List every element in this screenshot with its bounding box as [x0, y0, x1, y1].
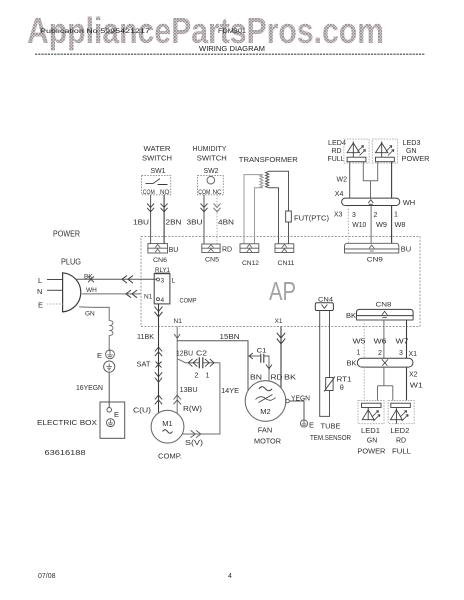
header rule	[35, 53, 425, 55]
pin 4	[157, 298, 160, 301]
svg-text:3: 3	[161, 278, 165, 285]
wire GN from plug to ground	[79, 307, 109, 321]
svg-text:NO: NO	[160, 189, 170, 196]
svg-text:1: 1	[357, 349, 361, 356]
connector CN8	[357, 309, 414, 315]
svg-text:LED4: LED4	[328, 140, 346, 147]
wire SW1 COM (1BU)	[150, 195, 152, 244]
svg-text:BU: BU	[169, 247, 179, 254]
svg-text:RD: RD	[222, 246, 232, 253]
chevrons	[201, 203, 208, 211]
svg-text:LED3: LED3	[403, 140, 421, 147]
svg-text:SWITCH: SWITCH	[142, 155, 172, 162]
svg-text:X3: X3	[334, 211, 343, 218]
chevrons up on R(W) wire	[174, 395, 181, 404]
svg-text:1: 1	[394, 212, 398, 219]
LED2	[388, 401, 414, 424]
svg-text:SAT: SAT	[137, 361, 152, 368]
relay RLY1	[154, 274, 170, 304]
svg-text:POWER: POWER	[357, 447, 386, 456]
chevrons on S(V) wire	[191, 430, 201, 437]
svg-text:2: 2	[374, 212, 378, 219]
connector CN11	[275, 244, 294, 253]
svg-text:W6: W6	[374, 338, 387, 345]
chevrons down	[155, 372, 162, 382]
SAT X marker	[156, 362, 162, 368]
chassis ground circle	[104, 361, 115, 372]
wire SW2 NC (4BN)	[216, 195, 218, 244]
BK wire connector chevrons	[122, 276, 133, 284]
svg-text:W8: W8	[395, 222, 406, 229]
chevrons down	[277, 333, 285, 344]
svg-text:GN: GN	[367, 438, 378, 445]
svg-text:L: L	[38, 276, 42, 285]
svg-text:3BU: 3BU	[187, 220, 203, 227]
wire N1 to compressor R(W)	[177, 327, 185, 414]
svg-text:COMP: COMP	[180, 297, 197, 304]
svg-text:Publication No 5995421217: Publication No 5995421217	[40, 28, 151, 35]
BK wire X marker	[88, 276, 94, 282]
wire 11BK relay pin4 to compressor	[158, 304, 160, 413]
wire W9	[370, 206, 372, 244]
svg-text:4BN: 4BN	[218, 220, 234, 227]
capacitor C2	[186, 357, 220, 368]
svg-text:BK: BK	[284, 374, 296, 381]
svg-text:3: 3	[399, 350, 403, 357]
svg-text:TUBE: TUBE	[321, 422, 341, 431]
svg-text:NC: NC	[213, 189, 223, 196]
wire 16YEGN	[108, 372, 110, 407]
tube sensor wire pair	[320, 311, 330, 417]
wire LED3 right lead	[391, 162, 393, 199]
svg-text:X1: X1	[409, 351, 418, 358]
LED3	[372, 139, 397, 163]
svg-text:AP: AP	[269, 276, 296, 306]
svg-text:4: 4	[161, 297, 165, 304]
svg-text:SWITCH: SWITCH	[197, 155, 227, 162]
svg-text:W1: W1	[410, 382, 423, 389]
wire W6	[383, 320, 385, 358]
chevrons	[161, 203, 168, 211]
svg-text:TEM.SENSOR: TEM.SENSOR	[310, 433, 351, 442]
wire X1 BK from AP to fan motor	[280, 327, 282, 389]
electric box ground symbol	[107, 419, 115, 427]
svg-text:HUMIDITY: HUMIDITY	[193, 146, 227, 153]
svg-text:W7: W7	[396, 338, 409, 345]
svg-text:GN: GN	[85, 311, 95, 318]
connector bar X1/X2	[357, 358, 413, 367]
wire W5	[363, 320, 365, 358]
svg-text:S(V): S(V)	[185, 440, 203, 447]
connector CN5	[202, 244, 220, 253]
wire BK from plug to relay pin3	[77, 278, 157, 280]
svg-text:θ: θ	[340, 385, 344, 392]
svg-text:N1: N1	[174, 318, 183, 325]
svg-text:X1: X1	[275, 318, 283, 325]
compressor motor M1	[151, 410, 184, 443]
svg-text:COM: COM	[198, 189, 210, 196]
svg-text:BN: BN	[250, 374, 262, 381]
svg-text:BU: BU	[401, 244, 411, 253]
switch SW1	[142, 176, 171, 195]
svg-text:FDM301: FDM301	[218, 28, 246, 35]
LED1	[358, 401, 384, 424]
svg-text:CN9: CN9	[367, 257, 383, 264]
svg-text:WH: WH	[403, 198, 416, 207]
svg-text:POWER: POWER	[402, 156, 430, 163]
power plug	[63, 273, 81, 312]
wire 14YE	[182, 363, 220, 434]
switch SW2	[198, 176, 224, 195]
LED4	[344, 139, 369, 163]
svg-text:COMP.: COMP.	[158, 451, 182, 460]
svg-text:16YEGN: 16YEGN	[76, 385, 103, 392]
svg-text:CN8: CN8	[376, 302, 392, 309]
svg-text:X2: X2	[409, 371, 418, 378]
connector CN6	[148, 244, 168, 253]
svg-text:BK: BK	[346, 311, 356, 320]
wire SW1 NO (2BN)	[163, 195, 165, 244]
svg-text:14YE: 14YE	[221, 388, 239, 395]
wire W8	[391, 206, 393, 244]
svg-text:WATER: WATER	[144, 146, 171, 153]
earth terminal E circle	[106, 350, 115, 359]
svg-text:C1: C1	[257, 347, 267, 354]
svg-text:C2: C2	[196, 350, 207, 357]
svg-text:CN11: CN11	[278, 260, 295, 267]
wire W5 to LED1	[363, 367, 365, 400]
terminal N lead	[47, 289, 63, 291]
wire 15BN	[177, 341, 248, 391]
LED4-LED3 bridge wire	[363, 162, 377, 199]
fan ground symbol	[300, 420, 307, 427]
terminal L lead	[47, 279, 63, 281]
svg-text:12BU: 12BU	[176, 350, 193, 357]
svg-text:13BU: 13BU	[180, 387, 198, 394]
transformer primary winding	[244, 175, 263, 244]
svg-text:E: E	[38, 301, 43, 310]
svg-text:M2: M2	[260, 407, 270, 416]
svg-text:FAN: FAN	[258, 425, 273, 434]
svg-text:POWER: POWER	[53, 230, 80, 239]
svg-text:YEGN: YEGN	[291, 395, 310, 402]
svg-text:RD: RD	[396, 438, 406, 445]
svg-text:E: E	[97, 351, 102, 360]
svg-text:X4: X4	[335, 191, 344, 198]
svg-text:E: E	[114, 410, 119, 419]
svg-text:N1: N1	[144, 293, 153, 300]
wire W6 split to LED1/LED2	[378, 367, 393, 400]
terminal E lead	[47, 303, 63, 305]
thermistor RT1	[326, 378, 333, 391]
svg-text:W10: W10	[352, 222, 366, 229]
svg-text:CN5: CN5	[205, 257, 219, 264]
transformer secondary winding	[266, 171, 289, 244]
svg-text:TRANSFORMER: TRANSFORMER	[239, 155, 299, 164]
WH wire connector chevrons	[126, 290, 137, 298]
svg-text:PLUG: PLUG	[61, 258, 81, 267]
svg-text:R(W): R(W)	[183, 406, 202, 413]
svg-text:SW1: SW1	[151, 168, 166, 175]
wire WH from plug to AP	[82, 293, 141, 295]
svg-text:15BN: 15BN	[220, 334, 240, 341]
svg-text:11BK: 11BK	[137, 334, 154, 341]
svg-text:COM: COM	[143, 189, 155, 196]
svg-text:2: 2	[195, 373, 199, 380]
svg-text:BK: BK	[347, 358, 357, 367]
svg-text:E: E	[309, 421, 314, 430]
svg-text:2BN: 2BN	[166, 220, 182, 227]
svg-text:63616188: 63616188	[45, 448, 86, 457]
connector bar X4 WH	[342, 198, 400, 205]
svg-text:ELECTRIC BOX: ELECTRIC BOX	[37, 418, 97, 427]
YEGN terminal and wire	[286, 399, 290, 403]
svg-text:C(U): C(U)	[133, 407, 151, 414]
wire to earth symbol	[108, 336, 110, 352]
svg-text:07/08: 07/08	[38, 573, 56, 580]
svg-text:3: 3	[352, 212, 356, 219]
wire W2 LED4 left lead	[349, 162, 351, 199]
svg-text:W2: W2	[337, 176, 348, 183]
svg-text:1: 1	[206, 373, 210, 380]
chevrons	[214, 203, 221, 211]
wire W7	[406, 320, 408, 358]
svg-text:2: 2	[378, 350, 382, 357]
svg-text:W9: W9	[376, 222, 387, 229]
svg-text:1BU: 1BU	[133, 220, 149, 227]
chevrons up	[155, 395, 162, 404]
svg-text:L: L	[172, 278, 176, 285]
svg-text:SW2: SW2	[204, 168, 219, 175]
wire W1 to LED2	[406, 367, 408, 400]
svg-text:MOTOR: MOTOR	[254, 437, 282, 446]
svg-text:LED1: LED1	[361, 428, 380, 435]
svg-text:CN6: CN6	[153, 257, 167, 264]
electric box E terminal	[107, 408, 112, 413]
fan motor M2	[245, 381, 286, 422]
connector CN12	[240, 244, 259, 253]
svg-text:M1: M1	[162, 419, 172, 428]
pin 3	[157, 278, 160, 281]
wire SW2 COM (3BU)	[203, 195, 205, 244]
svg-text:FULL: FULL	[328, 156, 345, 163]
svg-text:4: 4	[228, 573, 232, 580]
svg-text:FULL: FULL	[392, 447, 411, 456]
electric box	[100, 402, 125, 438]
control board AP box	[141, 237, 420, 327]
chevrons down below relay	[155, 307, 163, 317]
GN cord coil	[109, 321, 113, 336]
chevrons up	[155, 347, 162, 356]
svg-text:FUT(PTC): FUT(PTC)	[294, 216, 329, 223]
svg-text:N: N	[37, 287, 42, 296]
capacitor C1	[248, 353, 272, 381]
wire W10	[347, 206, 349, 244]
connector CN9	[345, 243, 399, 249]
chevrons	[147, 203, 154, 211]
svg-text:CN12: CN12	[242, 260, 259, 267]
svg-text:WH: WH	[86, 287, 97, 294]
svg-text:GN: GN	[406, 148, 417, 155]
svg-text:WIRING DIAGRAM: WIRING DIAGRAM	[199, 44, 265, 53]
fuse FUT(PTC)	[286, 211, 292, 222]
svg-text:LED2: LED2	[390, 428, 409, 435]
arrow on N1 wire	[174, 334, 180, 338]
svg-text:RD: RD	[332, 148, 342, 155]
svg-text:W5: W5	[353, 338, 366, 345]
svg-text:RT1: RT1	[337, 376, 352, 383]
connector CN4	[315, 303, 333, 311]
